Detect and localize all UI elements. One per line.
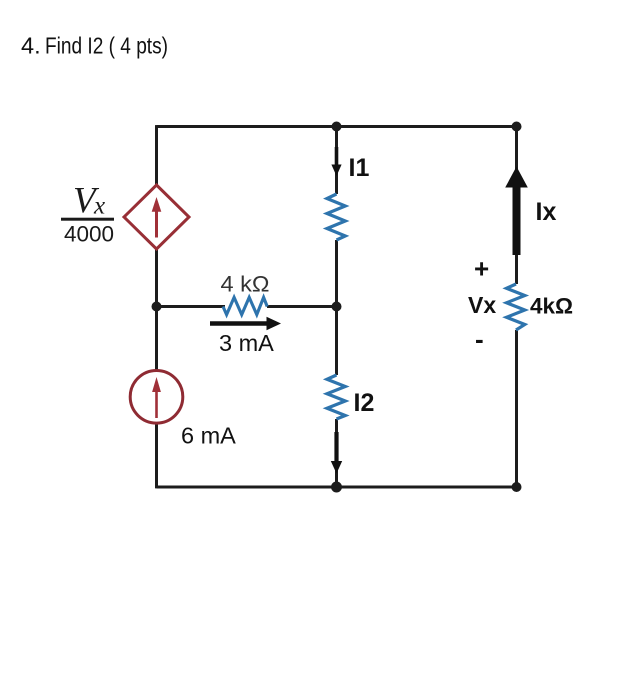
resistor 4 kOhm horizontal <box>223 297 267 314</box>
wire left vertical upper segment <box>155 125 158 186</box>
label Vx/4000 <box>61 181 114 247</box>
arrow I1 <box>331 147 341 176</box>
svg-text:4.: 4. <box>21 33 41 59</box>
resistor 4kOhm right branch <box>507 284 525 330</box>
wire middle horizontal (right part) <box>267 305 337 308</box>
title text <box>21 33 168 59</box>
svg-text:Find I2 ( 4 pts): Find I2 ( 4 pts) <box>45 33 168 59</box>
svg-text:Ix: Ix <box>536 198 557 226</box>
svg-text:4000: 4000 <box>64 222 114 247</box>
wire middle horizontal (left node to middle node) <box>157 305 226 308</box>
wire middle vertical lower segment <box>335 419 338 487</box>
node left middle junction dot <box>152 302 162 312</box>
node top right junction dot <box>512 122 522 132</box>
resistor R1 (top middle branch) <box>327 194 345 240</box>
resistor R2 (bottom middle branch) <box>327 375 345 419</box>
svg-text:I2: I2 <box>354 389 375 417</box>
independent current source circle 6 mA <box>130 371 183 424</box>
wire left vertical middle segment <box>155 248 158 372</box>
dependent source arrow <box>152 197 162 238</box>
node top middle junction dot <box>332 122 342 132</box>
wire middle vertical segment between middle node and R2 <box>335 307 338 376</box>
wire middle vertical segment between R1 and middle node <box>335 240 338 307</box>
arrow Ix (right branch) <box>505 167 528 256</box>
svg-text:6 mA: 6 mA <box>181 423 236 449</box>
arrow 3 mA <box>210 317 281 331</box>
node bottom right junction dot <box>512 482 522 492</box>
svg-text:4 kΩ: 4 kΩ <box>221 272 270 297</box>
svg-text:x: x <box>93 193 105 220</box>
svg-text:Vx: Vx <box>468 292 496 318</box>
svg-text:4kΩ: 4kΩ <box>530 294 573 319</box>
wire left vertical lower segment <box>155 422 158 488</box>
svg-text:+: + <box>474 254 489 284</box>
wire middle vertical upper segment <box>335 127 338 195</box>
current source arrow <box>152 377 161 418</box>
wire right vertical lower segment <box>515 330 518 488</box>
svg-text:3 mA: 3 mA <box>219 330 274 356</box>
wire right vertical upper segment <box>515 127 518 285</box>
dependent current source diamond <box>124 185 189 249</box>
wire bottom horizontal <box>157 486 517 489</box>
svg-text:I1: I1 <box>349 154 370 182</box>
arrow I2 (below R2) <box>331 432 342 474</box>
node center junction dot <box>332 302 342 312</box>
svg-text:-: - <box>475 324 484 354</box>
node bottom middle junction dot <box>331 482 342 493</box>
wire top horizontal <box>157 125 517 128</box>
